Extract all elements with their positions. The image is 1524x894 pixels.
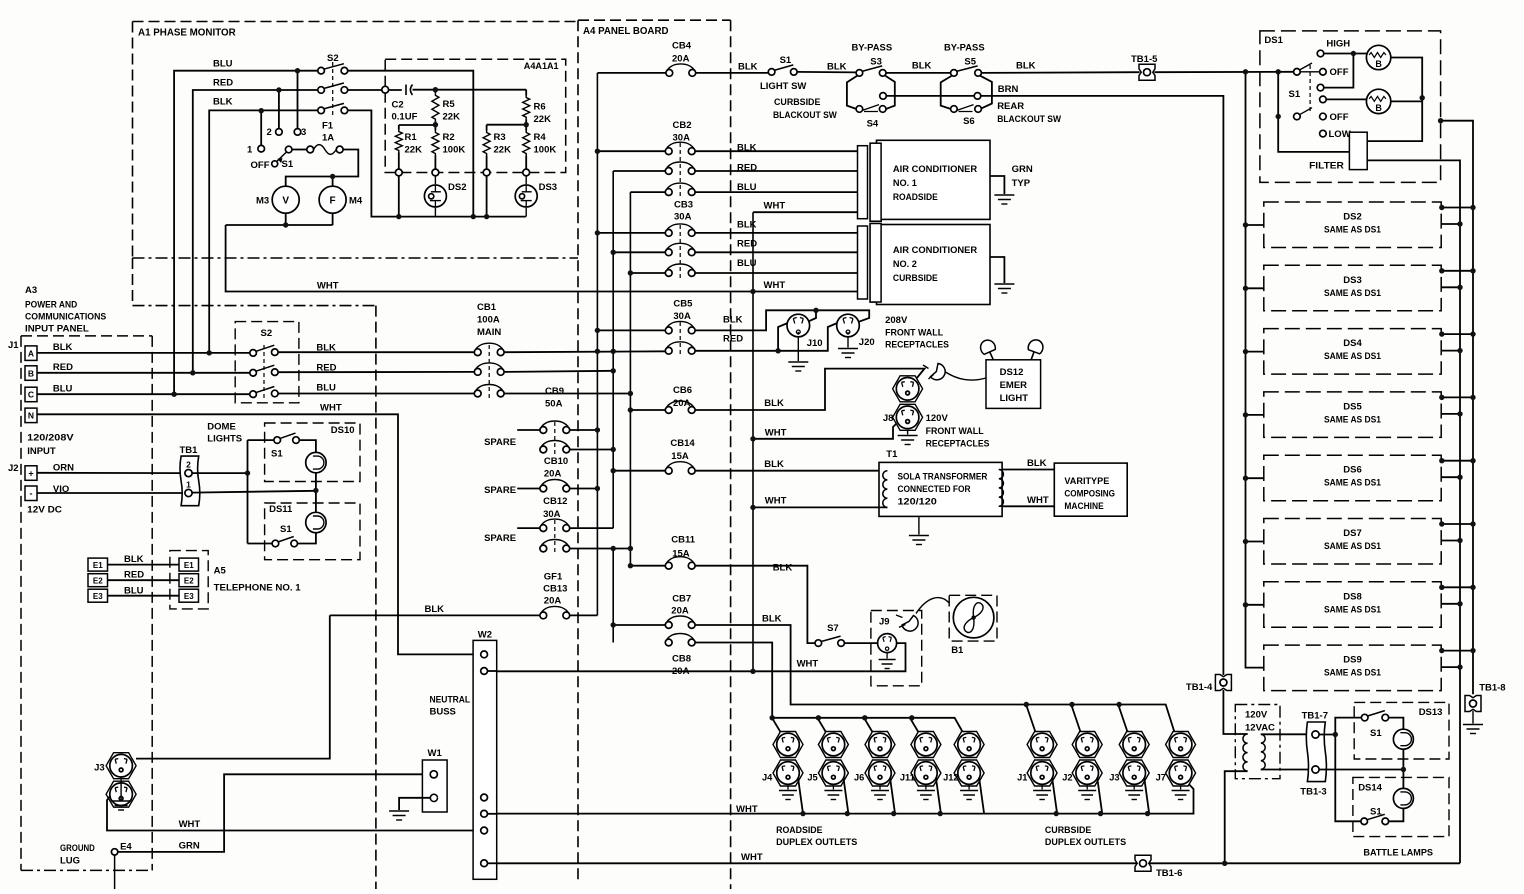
svg-text:CB12: CB12 [543,496,567,507]
neon lamp DS2 [434,169,436,184]
svg-text:A5: A5 [214,566,227,577]
svg-text:AIR CONDITIONER: AIR CONDITIONER [893,245,978,255]
svg-text:B: B [1375,103,1382,113]
outlet J11 [911,732,941,758]
neon lamp DS3 [525,169,527,184]
wire WHT to T1 [753,506,887,508]
svg-text:S1: S1 [1289,89,1301,100]
svg-text:DUPLEX OUTLETS: DUPLEX OUTLETS [776,837,857,848]
svg-text:LIGHT SW: LIGHT SW [760,81,806,92]
svg-text:VIO: VIO [53,484,69,495]
svg-text:RED: RED [723,334,743,345]
svg-text:BLK: BLK [1027,458,1047,469]
svg-text:J7: J7 [1156,773,1166,783]
svg-text:SPARE: SPARE [484,533,516,544]
svg-text:CB7: CB7 [672,594,691,605]
svg-text:100K: 100K [534,145,557,156]
wire CB8 to roadside outlets [695,643,772,718]
svg-text:SAME AS DS1: SAME AS DS1 [1324,604,1381,614]
svg-text:A4 PANEL BOARD: A4 PANEL BOARD [583,26,669,37]
svg-text:BY-PASS: BY-PASS [944,43,985,54]
svg-text:CB14: CB14 [670,438,695,449]
wire DS7 stubs right [1441,523,1473,525]
wire VIO to lamps [192,491,316,493]
switch S1 DS13 [1367,711,1385,717]
svg-text:R2: R2 [443,132,455,143]
wire J1-N WHT [37,414,473,654]
svg-text:E1: E1 [93,561,103,570]
lamp DS13 [1393,729,1413,749]
svg-text:SAME AS DS1: SAME AS DS1 [1324,478,1381,488]
switch S1 DS1 pole1 [1294,69,1301,76]
svg-text:S1: S1 [1370,728,1382,739]
svg-text:120/120: 120/120 [898,497,937,507]
svg-text:22K: 22K [405,145,423,156]
svg-text:BLK: BLK [737,219,757,230]
svg-text:B: B [28,368,34,378]
wire R5 top to R6 [435,89,526,91]
svg-text:12V DC: 12V DC [27,505,62,516]
svg-text:CB3: CB3 [674,200,693,211]
svg-text:CONNECTED FOR: CONNECTED FOR [898,484,971,494]
breaker CB1 100A main [476,343,503,349]
ground J3 [120,777,122,800]
plug and cord to B1 [902,616,918,632]
wire feed J2 [1071,705,1082,736]
svg-text:BLK: BLK [213,97,233,108]
svg-text:E1: E1 [184,561,194,570]
svg-text:RED: RED [316,362,336,373]
svg-text:BLK: BLK [764,398,784,409]
svg-text:DS6: DS6 [1343,465,1361,476]
outlet J4 [773,732,803,758]
svg-text:WHT: WHT [797,659,819,670]
svg-text:RECEPTACLES: RECEPTACLES [926,439,990,450]
svg-text:J2: J2 [1062,773,1072,783]
feed-through TB1-4 [1215,675,1231,691]
svg-text:C: C [28,390,34,400]
svg-text:BY-PASS: BY-PASS [852,43,893,54]
svg-text:DS2: DS2 [1343,212,1361,223]
svg-text:50A: 50A [545,399,563,410]
svg-text:SOLA TRANSFORMER: SOLA TRANSFORMER [898,472,988,482]
breaker CB5 30A 2-pole [597,329,665,331]
breaker CB6 20A [630,409,665,411]
lamp DS10 [306,452,326,472]
svg-text:J5: J5 [807,773,817,783]
svg-text:BUSS: BUSS [430,706,456,717]
svg-text:ROADSIDE: ROADSIDE [893,192,938,202]
svg-text:BRN: BRN [998,84,1019,95]
svg-text:DUPLEX OUTLETS: DUPLEX OUTLETS [1045,837,1126,848]
S2 A1 3-pole switch [324,64,344,69]
feed-through TB1-5 [1139,64,1155,80]
breaker CB4 [597,72,666,74]
svg-text:BLK: BLK [1016,60,1036,71]
emergency light DS12 box [986,360,1041,409]
svg-text:DS14: DS14 [1358,783,1382,794]
svg-text:SAME AS DS1: SAME AS DS1 [1324,541,1381,551]
svg-text:J20: J20 [859,337,875,348]
wire BRN [981,96,1224,675]
dome lights wiring [192,472,247,474]
feed-through TB1-8 [1465,696,1481,712]
svg-text:OFF: OFF [1330,67,1349,78]
terminal block TB1 [180,456,200,506]
svg-text:20A: 20A [544,596,562,607]
svg-text:S6: S6 [963,116,975,127]
contact 2 [278,90,280,129]
svg-text:W1: W1 [428,748,443,759]
svg-text:TB1: TB1 [180,445,199,456]
svg-text:+: + [28,468,33,478]
svg-text:AIR CONDITIONER: AIR CONDITIONER [893,164,978,174]
meter M3 voltmeter [272,186,299,213]
svg-text:DS10: DS10 [331,425,355,436]
fuse F1 [307,146,314,153]
bus 1 BLK [596,73,598,616]
by-pass switch S5/S6 [956,66,977,72]
breaker CB14 15A [613,470,665,472]
DS9 box (same as DS1) [1264,645,1441,691]
wire feed J3 [1118,705,1129,736]
svg-text:BLU: BLU [737,182,757,193]
svg-text:SAME AS DS1: SAME AS DS1 [1324,668,1381,678]
switch S1 light sw [774,65,793,71]
receptacle J9 [878,634,897,653]
svg-text:22K: 22K [494,145,512,156]
wire feed J11 [910,718,921,736]
svg-text:LOW: LOW [1329,129,1351,140]
ground J9 [886,653,888,659]
svg-text:DS5: DS5 [1343,401,1362,412]
wire CB7 to curbside outlets [695,625,1176,737]
outlet J1 [1027,732,1057,758]
wire WHT to J8 [753,424,897,439]
AC no.2 box [877,225,991,305]
terminal circles on A4A1A1 edge [382,86,389,93]
svg-text:WHT: WHT [320,403,342,414]
svg-text:S1: S1 [280,524,292,535]
outlet J3 [136,615,330,758]
DS12 lamp heads [978,338,1000,363]
AC no.1 connector [858,146,868,219]
svg-text:S7: S7 [827,623,839,634]
svg-text:HIGH: HIGH [1326,38,1350,49]
svg-text:FRONT WALL: FRONT WALL [885,328,943,339]
breaker CB12 30A 2-pole spare [517,527,540,529]
switch S1 DS10 [280,433,296,439]
meter M4 freq meter [319,186,346,213]
svg-text:CB13: CB13 [543,584,567,595]
svg-text:F: F [330,196,336,207]
svg-text:TELEPHONE NO. 1: TELEPHONE NO. 1 [214,583,302,594]
switch S1 DS1 pole2 [1294,113,1301,120]
svg-text:J3: J3 [1109,773,1119,783]
CB3 outputs to AC2 [694,232,860,234]
contact to lamp2 node [1317,84,1324,91]
svg-text:DOME: DOME [207,422,236,433]
svg-text:E3: E3 [93,592,103,601]
CB7/CB8 feeder [612,549,614,643]
svg-text:A1 PHASE MONITOR: A1 PHASE MONITOR [138,28,236,39]
breaker CB10 20A spare [517,488,540,490]
DS11 dashed box [265,503,360,560]
svg-text:E2: E2 [93,576,103,585]
svg-text:E3: E3 [184,592,194,601]
wire TB1-7 to DS13 [1319,734,1335,736]
svg-text:TB1-4: TB1-4 [1186,682,1213,693]
svg-text:120/208V: 120/208V [27,433,74,444]
svg-text:GRN: GRN [179,841,200,852]
svg-text:V: V [282,196,289,207]
A1 phase monitor dashed border [133,21,579,23]
DS5 box (same as DS1) [1264,392,1441,438]
wire DS2 left stub [1246,224,1264,226]
svg-text:BLK: BLK [738,62,758,73]
wire lamp1 out [1391,58,1422,98]
contact 1 [260,111,262,146]
svg-text:CB11: CB11 [671,534,695,545]
A3 power panel dashed box [21,335,152,337]
wire BLU A1 [174,71,318,395]
svg-text:12VAC: 12VAC [1245,723,1275,734]
neutral buss W2 [473,640,497,879]
svg-text:NO. 1: NO. 1 [893,178,917,188]
svg-text:BLK: BLK [912,60,932,71]
ground W1 [399,798,430,810]
ground T1 [918,516,920,534]
svg-text:1: 1 [186,480,191,490]
contact HIGH [1317,50,1324,57]
plug to DS12 [931,364,946,380]
svg-text:2: 2 [186,459,191,469]
svg-text:WHT: WHT [765,496,787,507]
svg-text:LIGHTS: LIGHTS [207,434,242,445]
wires CB5 to J10/J20 [695,310,869,330]
svg-text:BLK: BLK [53,342,73,353]
secondary top to TB1-7 [1261,733,1312,735]
wire DS3 stubs right [1441,270,1473,272]
svg-text:R5: R5 [443,99,456,110]
svg-text:SAME AS DS1: SAME AS DS1 [1324,288,1381,298]
svg-text:J6: J6 [854,773,864,783]
svg-text:W2: W2 [478,630,492,641]
switch S1 DS11 [298,533,316,544]
outlet J2 [1072,732,1102,758]
svg-text:BLK: BLK [316,343,336,354]
terminal block TB1-7 / TB1-3 [1306,722,1326,782]
wire WHT bottom long [488,862,497,864]
varitype composing machine box [1054,463,1127,516]
DS3 box (same as DS1) [1264,265,1441,311]
wire CB11 to S7 [695,566,815,643]
transformer 120V/12VAC [1243,734,1248,771]
bus 3 [629,192,631,566]
lamp B1 DS1 [1366,45,1390,69]
svg-text:22K: 22K [534,114,552,125]
breaker CB7 20A [613,624,665,626]
svg-text:22K: 22K [443,112,461,123]
wire common pole2 [1278,72,1349,152]
svg-text:CB2: CB2 [673,120,692,131]
svg-text:DS11: DS11 [269,504,293,515]
switch S1 A1 [277,152,287,162]
ground J10 [797,337,799,361]
resistor R5 [434,90,436,94]
wire DS6 left stub [1246,477,1264,479]
svg-text:J3: J3 [94,763,105,774]
svg-text:BLU: BLU [53,384,73,395]
wire CB14 to T1 [695,470,887,472]
svg-text:GROUND: GROUND [60,843,95,854]
svg-text:CB1: CB1 [477,302,497,313]
svg-text:BLK: BLK [764,459,784,470]
svg-text:E2: E2 [184,576,194,585]
svg-text:ROADSIDE: ROADSIDE [776,825,822,836]
AC no.1 box [877,140,991,219]
svg-text:30A: 30A [674,212,692,223]
left bus to DS boxes [1246,72,1264,668]
svg-text:SAME AS DS1: SAME AS DS1 [1324,351,1381,361]
svg-text:CB10: CB10 [544,456,568,467]
svg-text:J10: J10 [807,338,823,349]
svg-text:J8: J8 [883,413,894,424]
svg-text:M4: M4 [349,196,363,207]
junction dots [295,68,300,73]
svg-text:R6: R6 [534,102,546,113]
svg-text:N: N [28,411,34,421]
svg-text:J1: J1 [8,340,19,351]
svg-text:LUG: LUG [60,855,80,866]
svg-text:R4: R4 [534,132,547,143]
svg-text:BLK: BLK [827,62,847,73]
ground AC2 [990,257,1004,283]
svg-text:BLK: BLK [762,614,782,625]
outlet J12 [954,732,984,758]
svg-text:120V: 120V [1245,710,1268,721]
ground J8 [907,431,909,435]
outlet J5 [818,732,848,758]
svg-text:ORN: ORN [53,463,74,474]
svg-text:OFF: OFF [251,160,270,171]
DS13 dashed box [1354,702,1449,759]
filter box [1349,132,1367,169]
svg-text:DS1: DS1 [1264,35,1283,46]
primary bottom to WHT [1225,771,1248,863]
A5 telephone dashed box [170,551,208,609]
DS8 box (same as DS1) [1264,582,1441,628]
wire DS14 switch feed [1335,735,1361,822]
feed-through TB1-6 [1135,855,1151,871]
svg-text:0.1UF: 0.1UF [392,112,418,123]
svg-text:DS12: DS12 [1000,367,1024,378]
svg-text:A3: A3 [25,285,37,296]
svg-text:RED: RED [737,238,757,249]
wire DS8 stubs right [1441,586,1473,588]
ground J20 [847,337,849,348]
receptacle J8 duplex [893,376,923,402]
connector J2 terminals [25,466,37,481]
svg-text:A: A [28,348,34,358]
outlet J6 [865,732,895,758]
S2 input switch dashed box [235,322,299,403]
resistor R1 [398,125,400,130]
svg-text:WHT: WHT [317,281,339,292]
wire TB1-3 to node [1319,769,1403,771]
svg-text:CURBSIDE: CURBSIDE [774,97,820,108]
svg-text:WHT: WHT [1027,495,1049,506]
wire fuse to meters [286,150,359,187]
svg-text:SPARE: SPARE [484,485,516,496]
svg-text:COMMUNICATIONS: COMMUNICATIONS [25,312,106,323]
svg-text:COMPOSING: COMPOSING [1064,489,1115,499]
svg-text:T1: T1 [886,449,898,460]
wire J1-B RED [37,372,250,374]
breaker CB2 30A 3-pole [597,150,665,152]
svg-text:BLK: BLK [723,315,743,326]
transformer T1 box [879,462,1002,516]
svg-text:S3: S3 [870,56,882,67]
wire feed J6 [864,718,875,736]
wire feed J4 [772,718,783,736]
A4A1A1 dashed box [385,59,566,172]
svg-text:RECEPTACLES: RECEPTACLES [885,340,949,351]
svg-text:A4A1A1: A4A1A1 [524,61,559,72]
wire DS7 left stub [1246,541,1264,543]
svg-text:SPARE: SPARE [484,437,516,448]
lamp B2 DS1 [1326,98,1366,100]
receptacle J10 [787,314,810,337]
svg-text:208V: 208V [885,315,908,326]
svg-text:CB9: CB9 [545,386,564,397]
svg-text:TB1-6: TB1-6 [1156,868,1182,879]
DS10 dashed box [265,423,360,482]
capacitor C2 [405,85,407,96]
svg-text:R1: R1 [405,132,418,143]
lamp DS11 [306,512,326,532]
wire to S3 [797,71,856,74]
wire DS6 stubs right [1441,460,1473,462]
breaker CB3 30A 3-pole [597,232,665,234]
svg-text:30A: 30A [673,311,691,322]
CB2 outputs to AC1 [694,150,860,152]
wire RED A1 [193,90,318,373]
svg-text:TB1-3: TB1-3 [1300,787,1326,798]
svg-text:J12: J12 [943,773,959,783]
contact 3 [297,71,299,129]
svg-text:BLACKOUT SW: BLACKOUT SW [773,110,837,121]
svg-text:B1: B1 [951,645,964,656]
A3/A4 region boundary dashed [132,258,134,306]
wire WHT W2 to J9 [488,670,497,672]
svg-text:20A: 20A [672,666,690,677]
wire DS5 left stub [1246,414,1264,416]
svg-text:BLK: BLK [425,604,445,615]
svg-text:BLK: BLK [773,563,793,574]
by-pass switch S3/S4 [862,66,882,72]
svg-text:BATTLE LAMPS: BATTLE LAMPS [1363,848,1433,859]
DS2 box (same as DS1) [1264,202,1441,248]
wire CB4 to light switch [695,72,768,74]
wire CB6 to J8 BLK [695,369,925,410]
wire DS8 left stub [1246,604,1264,606]
svg-text:CB5: CB5 [673,299,693,310]
svg-text:TB1-5: TB1-5 [1131,54,1158,65]
switch S7 [821,636,841,642]
svg-text:J4: J4 [762,773,773,783]
svg-text:INPUT PANEL: INPUT PANEL [25,324,89,335]
